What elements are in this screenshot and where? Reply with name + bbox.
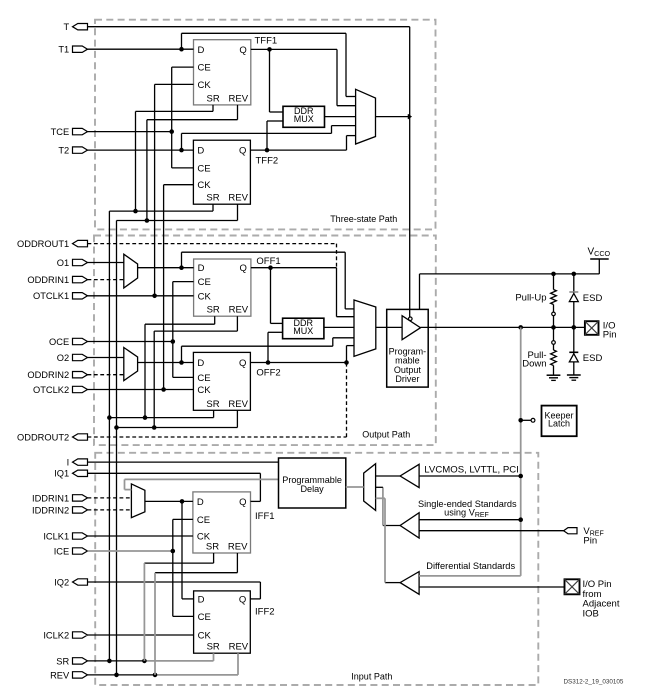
svg-text:SR: SR xyxy=(56,656,69,666)
svg-text:VCCO: VCCO xyxy=(588,247,611,258)
svg-text:CK: CK xyxy=(198,631,212,642)
svg-text:IFF2: IFF2 xyxy=(255,607,275,618)
svg-text:REV: REV xyxy=(229,305,249,316)
svg-text:CE: CE xyxy=(198,63,211,74)
svg-text:TCE: TCE xyxy=(51,127,70,137)
svg-text:IDDRIN1: IDDRIN1 xyxy=(32,493,69,503)
svg-text:OCE: OCE xyxy=(49,337,69,347)
svg-text:TFF1: TFF1 xyxy=(255,36,278,47)
svg-text:SR: SR xyxy=(206,193,219,204)
svg-text:OTCLK1: OTCLK1 xyxy=(33,291,69,301)
svg-text:ICLK1: ICLK1 xyxy=(43,531,69,541)
svg-text:Output Path: Output Path xyxy=(362,430,410,440)
svg-text:REV: REV xyxy=(228,193,248,204)
svg-text:ESD: ESD xyxy=(583,353,603,364)
svg-text:SR: SR xyxy=(206,542,219,553)
svg-text:CE: CE xyxy=(198,612,211,623)
svg-text:T1: T1 xyxy=(58,45,69,55)
svg-text:CK: CK xyxy=(197,385,211,396)
svg-text:OFF2: OFF2 xyxy=(256,368,280,379)
svg-text:REV: REV xyxy=(229,642,249,653)
svg-text:IDDRIN2: IDDRIN2 xyxy=(32,505,69,515)
svg-text:O2: O2 xyxy=(57,353,69,363)
svg-text:ODDROUT2: ODDROUT2 xyxy=(17,432,69,442)
svg-text:D: D xyxy=(197,358,204,369)
svg-text:I: I xyxy=(67,458,70,468)
svg-text:ODDRIN1: ODDRIN1 xyxy=(27,275,69,285)
svg-text:Three-state Path: Three-state Path xyxy=(330,214,397,224)
svg-text:O1: O1 xyxy=(57,258,69,268)
svg-text:D: D xyxy=(198,594,205,605)
svg-text:MUX: MUX xyxy=(294,114,314,124)
svg-text:Q: Q xyxy=(239,45,246,56)
svg-text:LVCMOS, LVTTL, PCI: LVCMOS, LVTTL, PCI xyxy=(424,464,519,475)
svg-text:OTCLK2: OTCLK2 xyxy=(33,385,69,395)
svg-text:Down: Down xyxy=(522,358,546,369)
svg-text:D: D xyxy=(197,146,204,157)
svg-text:Pin: Pin xyxy=(603,330,617,341)
svg-text:REV: REV xyxy=(228,542,248,553)
svg-text:IQ2: IQ2 xyxy=(54,577,69,587)
svg-text:T2: T2 xyxy=(58,146,69,156)
svg-text:Q: Q xyxy=(240,263,247,274)
svg-text:CE: CE xyxy=(198,277,211,288)
svg-text:ESD: ESD xyxy=(583,293,603,304)
svg-text:TFF2: TFF2 xyxy=(256,156,279,167)
svg-text:Differential Standards: Differential Standards xyxy=(426,561,515,571)
svg-text:Q: Q xyxy=(239,146,246,157)
svg-text:T: T xyxy=(64,22,70,32)
svg-text:Input Path: Input Path xyxy=(351,672,392,682)
svg-text:OFF1: OFF1 xyxy=(256,256,280,267)
svg-text:SR: SR xyxy=(207,642,220,653)
svg-text:SR: SR xyxy=(207,305,220,316)
svg-text:MUX: MUX xyxy=(293,326,313,336)
svg-text:CK: CK xyxy=(198,80,212,91)
svg-text:CK: CK xyxy=(198,291,212,302)
svg-text:CE: CE xyxy=(197,163,210,174)
svg-text:ICLK2: ICLK2 xyxy=(43,630,69,640)
svg-text:D: D xyxy=(198,45,205,56)
svg-text:DS312-2_19_030105: DS312-2_19_030105 xyxy=(564,679,624,686)
svg-text:REV: REV xyxy=(228,399,248,410)
svg-text:D: D xyxy=(198,263,205,274)
svg-text:SR: SR xyxy=(207,93,220,104)
svg-text:CK: CK xyxy=(197,180,211,191)
svg-text:Q: Q xyxy=(239,497,246,508)
svg-text:REV: REV xyxy=(229,93,249,104)
svg-text:CE: CE xyxy=(197,515,210,526)
svg-text:ICE: ICE xyxy=(54,546,70,556)
svg-text:SR: SR xyxy=(206,399,219,410)
svg-text:IOB: IOB xyxy=(583,609,599,620)
svg-text:Driver: Driver xyxy=(395,374,419,384)
svg-text:ODDRIN2: ODDRIN2 xyxy=(27,370,69,380)
svg-text:Q: Q xyxy=(239,594,246,605)
svg-text:D: D xyxy=(197,497,204,508)
svg-text:IQ1: IQ1 xyxy=(54,469,69,479)
svg-text:REV: REV xyxy=(50,670,70,680)
svg-text:Delay: Delay xyxy=(300,484,324,494)
svg-text:CE: CE xyxy=(197,373,210,384)
svg-text:Latch: Latch xyxy=(548,418,570,428)
svg-text:Pin: Pin xyxy=(583,536,597,547)
svg-text:ODDROUT1: ODDROUT1 xyxy=(17,239,69,249)
svg-text:Pull-Up: Pull-Up xyxy=(515,292,546,303)
svg-text:Q: Q xyxy=(239,358,246,369)
svg-text:IFF1: IFF1 xyxy=(255,511,275,522)
